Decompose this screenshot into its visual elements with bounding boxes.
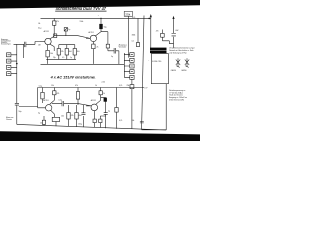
svg-text:330k: 330k bbox=[132, 35, 136, 37]
svg-text:1µ: 1µ bbox=[70, 57, 72, 59]
svg-text:+: + bbox=[98, 15, 99, 17]
svg-text:470k Ohm bei 1kHz: 470k Ohm bei 1kHz bbox=[169, 99, 184, 101]
svg-text:AC151: AC151 bbox=[44, 30, 49, 33]
svg-text:10k: 10k bbox=[61, 115, 64, 117]
svg-text:50µ: 50µ bbox=[104, 27, 107, 29]
svg-text:25k: 25k bbox=[125, 12, 130, 16]
svg-text:5µ: 5µ bbox=[108, 110, 110, 112]
svg-text:15k: 15k bbox=[40, 122, 43, 124]
svg-text:6k8: 6k8 bbox=[79, 115, 82, 117]
svg-text:1k: 1k bbox=[95, 85, 97, 87]
svg-text:47k: 47k bbox=[75, 85, 78, 87]
svg-text:47n: 47n bbox=[156, 30, 159, 32]
svg-text:47k: 47k bbox=[71, 115, 74, 117]
svg-text:20k: 20k bbox=[132, 120, 135, 122]
svg-text:0,5µ: 0,5µ bbox=[59, 99, 62, 101]
svg-text:AC151: AC151 bbox=[43, 99, 48, 102]
svg-text:0,5: 0,5 bbox=[62, 57, 64, 59]
svg-text:4,7k: 4,7k bbox=[119, 85, 122, 87]
svg-text:4,7k: 4,7k bbox=[132, 17, 135, 19]
svg-text:5µ: 5µ bbox=[111, 56, 113, 58]
svg-text:150k: 150k bbox=[80, 21, 84, 23]
svg-text:1k: 1k bbox=[103, 93, 105, 95]
svg-text:Stufe als Vorverst.: Stufe als Vorverst. bbox=[169, 94, 183, 97]
svg-text:8k: 8k bbox=[38, 23, 40, 25]
svg-text:47k: 47k bbox=[61, 51, 64, 53]
svg-text:OA150: OA150 bbox=[181, 69, 186, 72]
svg-text:2,5k: 2,5k bbox=[102, 82, 105, 84]
svg-text:Verstärker: Verstärker bbox=[119, 46, 127, 49]
svg-text:15k: 15k bbox=[51, 85, 54, 87]
svg-text:Schaltschema Dual TVV 47: Schaltschema Dual TVV 47 bbox=[56, 6, 107, 11]
svg-text:5µ: 5µ bbox=[38, 112, 40, 114]
svg-text:und Siebung nach Plan: und Siebung nach Plan bbox=[169, 52, 187, 54]
svg-text:AC151: AC151 bbox=[89, 31, 94, 34]
svg-text:AC151: AC151 bbox=[91, 99, 96, 102]
svg-text:5µ: 5µ bbox=[68, 29, 70, 31]
svg-text:E150 C30: E150 C30 bbox=[152, 61, 162, 63]
svg-text:25k: 25k bbox=[127, 85, 130, 87]
svg-text:Chassis: Chassis bbox=[6, 119, 12, 121]
svg-text:10k: 10k bbox=[50, 53, 53, 55]
svg-text:0,1µ: 0,1µ bbox=[39, 86, 42, 88]
svg-text:50µ: 50µ bbox=[19, 111, 22, 113]
svg-text:1k5: 1k5 bbox=[77, 51, 80, 53]
svg-text:4,7k: 4,7k bbox=[119, 120, 122, 122]
svg-text:0,1: 0,1 bbox=[132, 41, 134, 43]
svg-text:0,1µ: 0,1µ bbox=[38, 28, 41, 30]
svg-text:6k8: 6k8 bbox=[69, 51, 72, 53]
svg-text:47k: 47k bbox=[56, 21, 59, 23]
svg-text:OA150: OA150 bbox=[171, 69, 176, 72]
svg-text:25µ: 25µ bbox=[53, 57, 56, 59]
svg-text:47k: 47k bbox=[57, 93, 60, 95]
svg-text:2k: 2k bbox=[97, 46, 99, 48]
svg-text:Masse am: Masse am bbox=[6, 117, 14, 119]
svg-text:4 x AC 151/IV einstufenw.: 4 x AC 151/IV einstufenw. bbox=[49, 75, 95, 79]
svg-text:100µ: 100µ bbox=[78, 123, 82, 125]
